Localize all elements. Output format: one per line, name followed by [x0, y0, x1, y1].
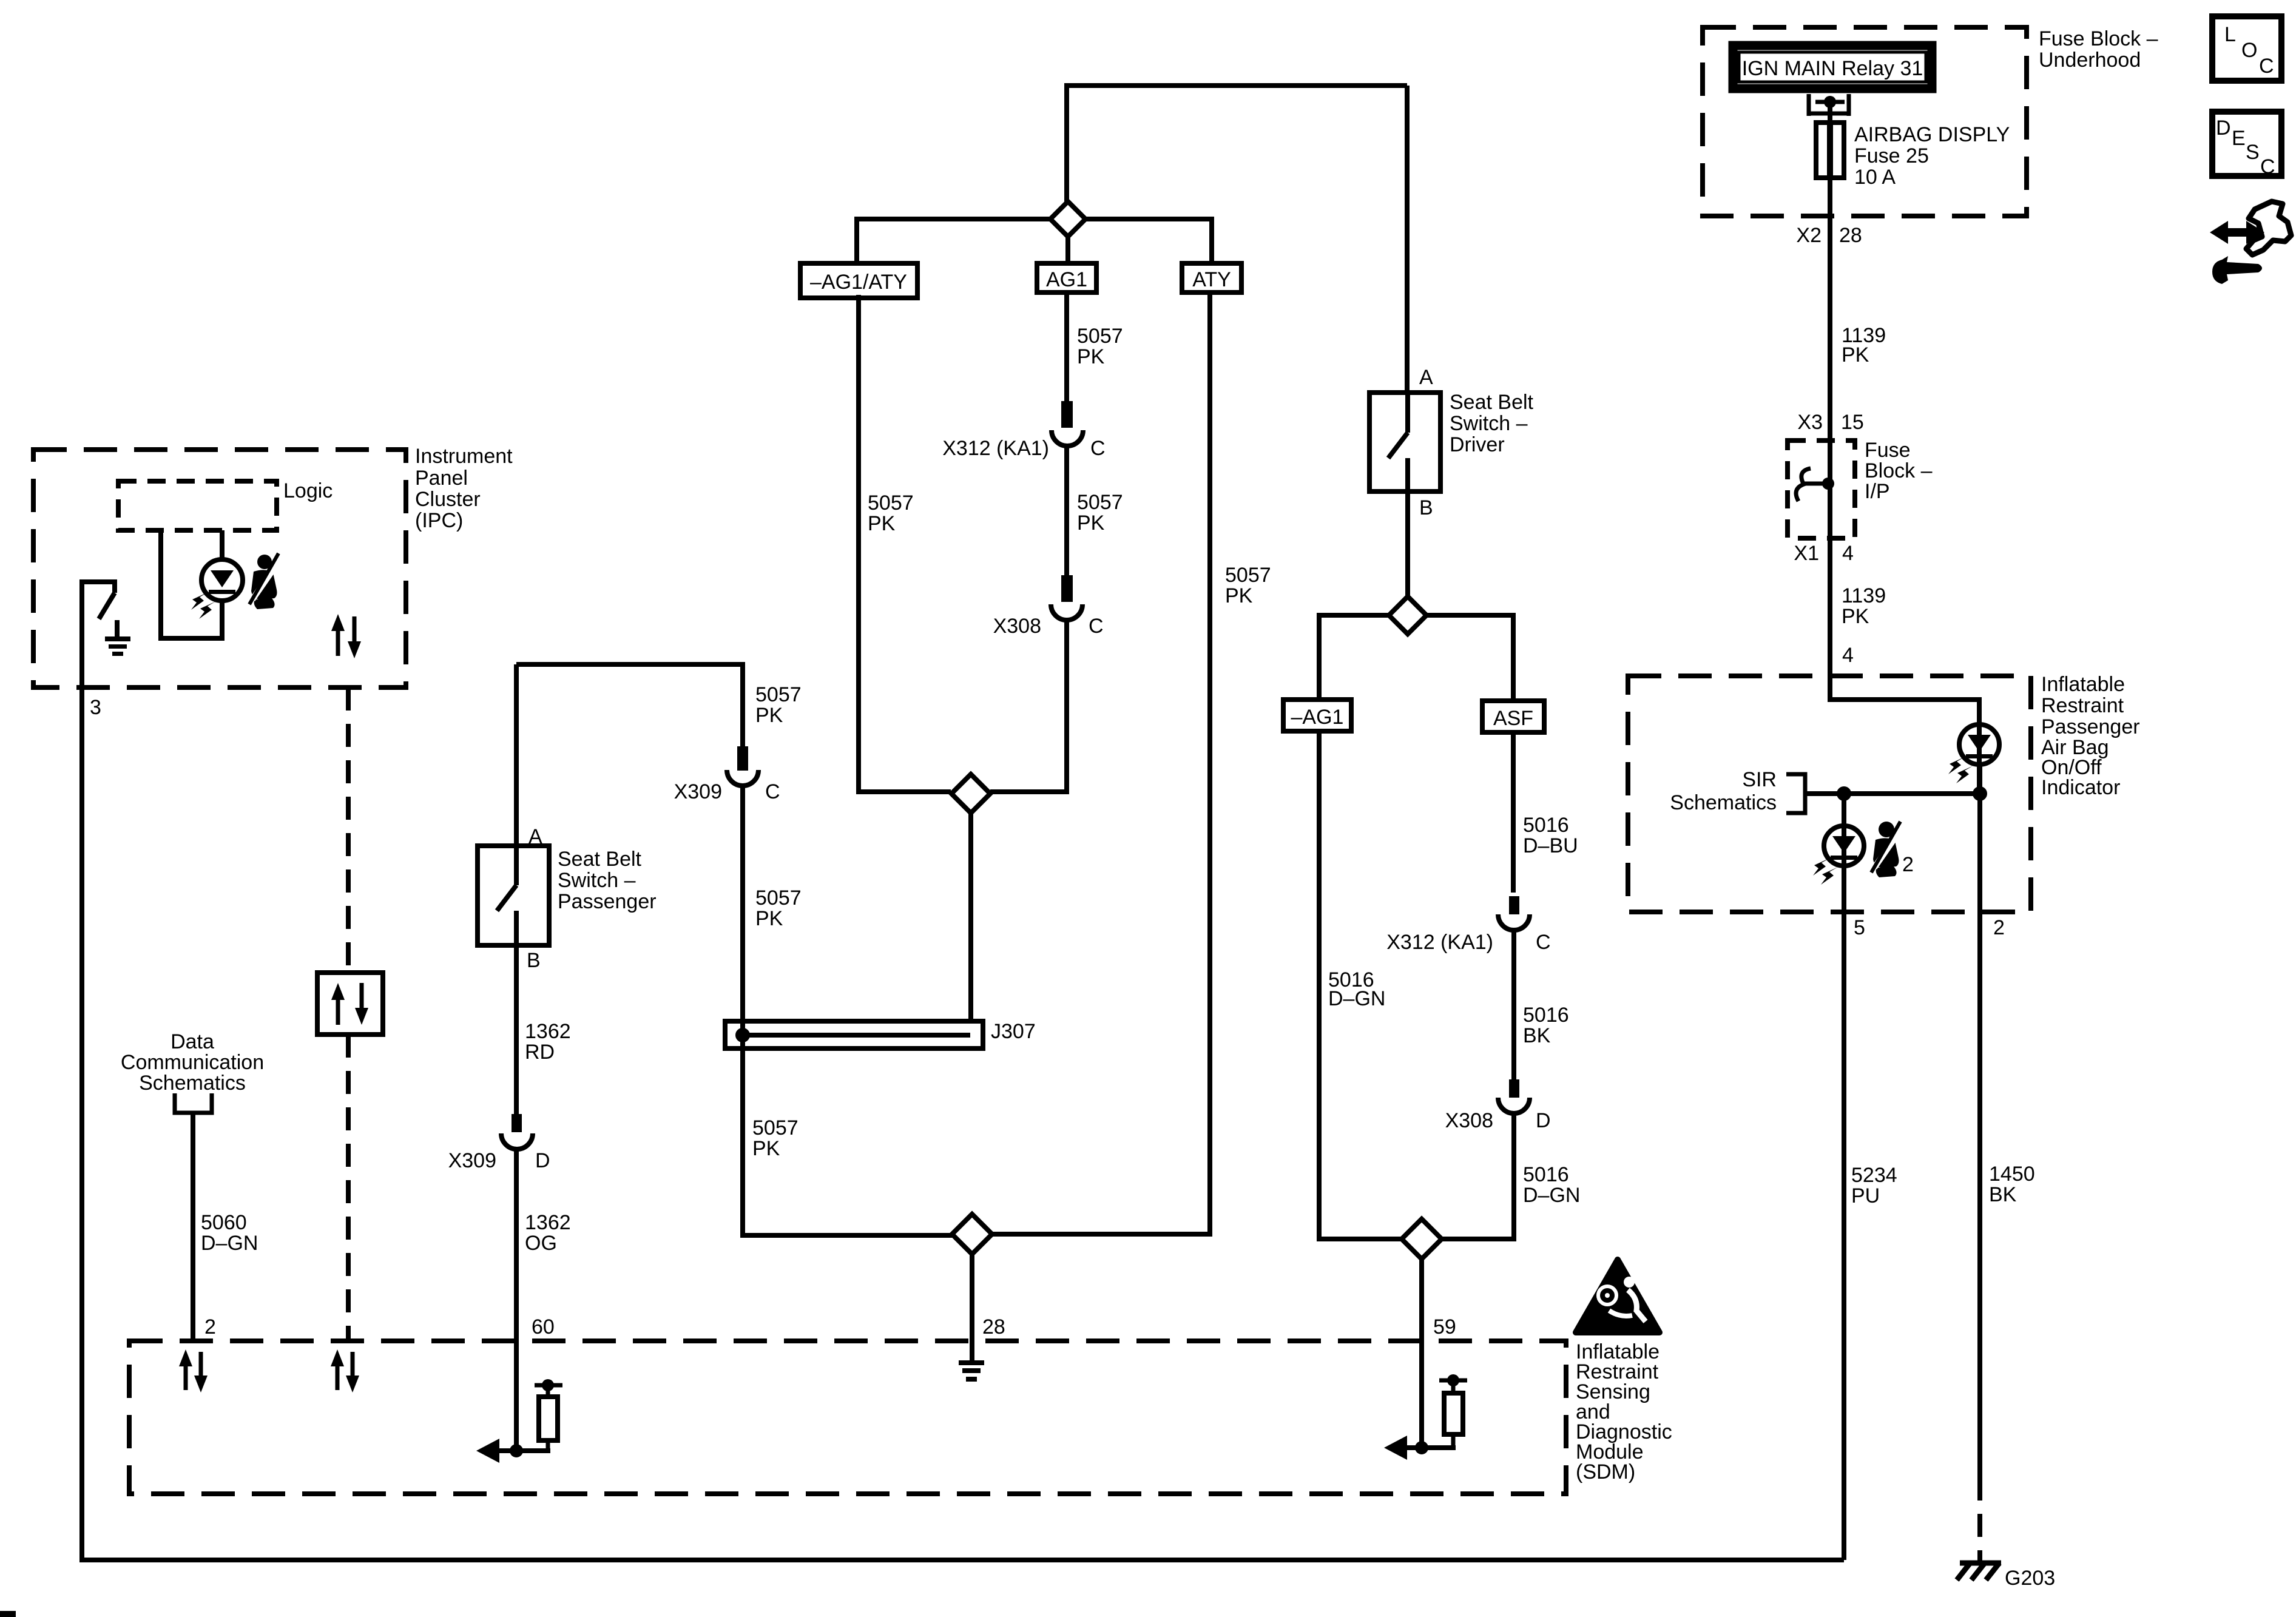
fuse 25 AIRBAG DISPLY 10A [1816, 123, 2010, 189]
wire: IPC LED loop [161, 530, 222, 638]
relay output terminal [1809, 94, 1849, 116]
svg-text:4: 4 [1842, 542, 1854, 565]
svg-text:3: 3 [90, 696, 101, 719]
svg-text:28: 28 [1839, 224, 1862, 247]
svg-text:Instrument: Instrument [415, 445, 513, 468]
svg-text:D–GN: D–GN [201, 1232, 258, 1255]
svg-text:X308: X308 [993, 615, 1041, 638]
svg-text:PK: PK [752, 1137, 780, 1160]
svg-text:1450: 1450 [1989, 1163, 2035, 1186]
svg-text:C: C [1090, 437, 1106, 460]
svg-text:C: C [1536, 931, 1551, 954]
junction node (left) [1837, 786, 1851, 801]
svg-text:5057: 5057 [752, 1116, 799, 1139]
svg-text:E: E [2232, 127, 2246, 150]
svg-text:PK: PK [1842, 343, 1869, 366]
Logic block [118, 479, 333, 530]
svg-text:5060: 5060 [201, 1211, 247, 1234]
svg-text:Data: Data [171, 1030, 214, 1053]
svg-text:28: 28 [982, 1315, 1005, 1338]
wire: IPC pin 3 down left side and along bottom [82, 579, 1844, 1560]
svg-text:X312 (KA1): X312 (KA1) [1386, 931, 1493, 954]
svg-text:5234: 5234 [1851, 1164, 1897, 1187]
svg-text:J307: J307 [991, 1020, 1036, 1043]
svg-text:D: D [2216, 116, 2231, 140]
wire to -AG1 [1319, 615, 1389, 700]
wire: relay to fuse [1828, 102, 1832, 123]
wire: indicator internal bus [1805, 791, 1980, 796]
svg-text:1362: 1362 [525, 1211, 571, 1234]
wire to ATY [1086, 219, 1212, 263]
wire: feed from driver branch top [1067, 86, 1407, 201]
svg-text:Seat Belt: Seat Belt [558, 848, 642, 871]
svg-text:1362: 1362 [525, 1020, 571, 1043]
svg-text:5057: 5057 [868, 491, 914, 515]
svg-text:C: C [765, 780, 780, 803]
wire to -AG1/ATY [857, 219, 1050, 263]
wire: 5016 D-GN to splice [1441, 1113, 1514, 1239]
splice diamond (bottom center) [952, 1214, 992, 1254]
wire to ASF [1427, 615, 1513, 701]
svg-text:–AG1: –AG1 [1291, 706, 1344, 729]
svg-text:2: 2 [1993, 916, 2005, 939]
svg-text:2: 2 [204, 1315, 216, 1338]
connector X308 pin D [1445, 1079, 1551, 1132]
seat belt wearer icon [249, 553, 279, 609]
splice diamond (top) [1050, 201, 1086, 237]
data link symbol box [317, 973, 383, 1035]
svg-text:PK: PK [868, 512, 896, 535]
svg-text:B: B [527, 949, 541, 972]
svg-text:OG: OG [525, 1232, 557, 1255]
svg-text:Fuse 25: Fuse 25 [1854, 144, 1929, 167]
svg-text:C: C [1089, 615, 1104, 638]
wire to AG1 [1065, 237, 1070, 263]
wire: B down to splice [1405, 491, 1410, 596]
wire: top link to X309 C [516, 664, 743, 751]
svg-text:Passenger: Passenger [558, 890, 657, 913]
svg-text:Inflatable: Inflatable [2041, 673, 2125, 696]
SDM serial data arrows (right) [331, 1349, 359, 1393]
svg-text:5057: 5057 [755, 886, 802, 910]
splice diamond (driver low) [1402, 1219, 1442, 1259]
wire: 1450 BK (pin 2) [1977, 765, 1982, 1477]
wire: X312 to X308 [1064, 446, 1069, 576]
svg-text:Panel: Panel [415, 467, 468, 490]
SDM input network (driver): arrow + pull-up resistor [1384, 1374, 1467, 1460]
seat belt wearer icon 2 [1871, 822, 1914, 877]
svg-text:Seat Belt: Seat Belt [1450, 391, 1534, 414]
svg-text:4: 4 [1842, 644, 1854, 667]
wire: ATY run down to splice [992, 292, 1210, 1234]
net name box AG1 [1037, 263, 1096, 292]
switch box (passenger) [478, 846, 657, 945]
wire: drop to switch [514, 664, 519, 846]
svg-text:SIR: SIR [1742, 768, 1777, 791]
wire: fuse down to fuse block I/P [1828, 178, 1832, 441]
svg-text:Cluster: Cluster [415, 488, 481, 511]
svg-text:BK: BK [1523, 1024, 1551, 1047]
svg-text:5016: 5016 [1523, 814, 1569, 837]
svg-text:PK: PK [1225, 584, 1253, 607]
svg-text:D–GN: D–GN [1328, 987, 1385, 1010]
svg-text:Switch –: Switch – [558, 869, 636, 892]
svg-text:Switch –: Switch – [1450, 412, 1528, 435]
svg-text:ASF: ASF [1493, 707, 1533, 730]
wire: splice to SDM pin 59 [1419, 1258, 1424, 1448]
circuit breaker symbol [1796, 468, 1834, 501]
SIR Schematics reference [1670, 768, 1805, 814]
svg-text:1139: 1139 [1842, 584, 1886, 607]
switch box (driver) [1369, 391, 1534, 491]
svg-text:Restraint: Restraint [2041, 694, 2124, 717]
svg-text:PK: PK [755, 704, 783, 727]
wire: through I/P block [1828, 441, 1832, 538]
wire: 1362 OG to SDM pin 60 [514, 1149, 519, 1451]
SDM serial data arrows (left) [179, 1349, 208, 1393]
connector X312 (KA1) pin C (driver run) [1386, 896, 1550, 954]
svg-text:59: 59 [1433, 1315, 1456, 1338]
net name box ATY [1182, 263, 1241, 292]
wire (dashed) from IPC to comm box [346, 687, 351, 973]
svg-text:X312 (KA1): X312 (KA1) [942, 437, 1049, 460]
svg-text:Driver: Driver [1450, 433, 1505, 456]
SDM input network (passenger): arrow + pull-up resistor [476, 1379, 562, 1463]
svg-text:5057: 5057 [1225, 564, 1271, 587]
IPC module box [33, 445, 513, 687]
wire: J307 to bottom splice [743, 1035, 952, 1235]
svg-text:Schematics: Schematics [139, 1072, 246, 1095]
indicator LED (seat belt lamp) [191, 559, 243, 619]
svg-text:10 A: 10 A [1854, 166, 1896, 189]
net name box ASF [1482, 701, 1544, 732]
ground (SDM internal) [959, 1360, 984, 1382]
svg-text:Passenger: Passenger [2041, 715, 2140, 738]
wire: splice to SDM pin 28 [970, 1254, 974, 1363]
svg-text:PK: PK [755, 907, 783, 930]
svg-text:Fuse Block –: Fuse Block – [2039, 27, 2158, 50]
repair info icon (arrow / connector / wrench) [2210, 201, 2291, 284]
splice pack J307 [725, 1020, 1036, 1048]
svg-text:D: D [1536, 1109, 1551, 1132]
svg-text:60: 60 [532, 1315, 555, 1338]
svg-text:5: 5 [1854, 916, 1865, 939]
svg-text:B: B [1419, 496, 1433, 519]
svg-text:A: A [1419, 366, 1433, 389]
svg-text:5057: 5057 [755, 683, 802, 706]
svg-text:S: S [2246, 141, 2260, 164]
wire: -AG1 run down to splice [1319, 731, 1402, 1239]
svg-text:I/P: I/P [1865, 480, 1890, 503]
svg-text:C: C [2259, 55, 2274, 78]
net name box -AG1/ATY [800, 263, 917, 298]
svg-text:X3: X3 [1797, 411, 1823, 434]
svg-text:Indicator: Indicator [2041, 776, 2120, 799]
wire: splice down to J307 [968, 813, 973, 1019]
wire: J307 top entry (covered) [740, 1021, 745, 1035]
svg-text:G203: G203 [2005, 1567, 2055, 1590]
switch in IPC (sensor) [82, 579, 117, 636]
svg-text:RD: RD [525, 1041, 555, 1064]
svg-text:X1: X1 [1794, 542, 1819, 565]
svg-text:PU: PU [1851, 1184, 1880, 1207]
wire: dashed to G203 [1977, 1477, 1982, 1561]
relay IGN MAIN Relay 31 [1733, 46, 1932, 89]
svg-text:Communication: Communication [121, 1051, 264, 1074]
svg-text:–AG1/ATY: –AG1/ATY [810, 271, 907, 294]
svg-text:AG1: AG1 [1046, 268, 1087, 291]
connector X308 pin C [993, 575, 1104, 638]
svg-text:X2: X2 [1796, 224, 1822, 247]
junction node (right) [1973, 786, 1987, 801]
wire: X308 down to splice [990, 620, 1067, 792]
connector X309 pin C [674, 746, 780, 803]
wire: AG1 down to X312 [1064, 292, 1069, 402]
wire: X309 C to J307 [740, 786, 745, 1019]
svg-text:PK: PK [1842, 605, 1869, 628]
svg-text:5057: 5057 [1077, 491, 1123, 514]
svg-text:(IPC): (IPC) [415, 509, 463, 532]
net name box -AG1 [1283, 700, 1351, 731]
connector X309 pin D [448, 1114, 550, 1172]
wire: 5060 D-GN [191, 1113, 195, 1341]
svg-text:5016: 5016 [1523, 1163, 1569, 1186]
wire: drop to driver switch [1405, 86, 1410, 393]
svg-text:Logic: Logic [283, 479, 333, 502]
connector X312 (KA1) pin C [942, 401, 1105, 460]
svg-text:5016: 5016 [1523, 1004, 1569, 1027]
svg-text:C: C [2260, 155, 2275, 178]
svg-text:PK: PK [1077, 345, 1105, 368]
svg-text:D–GN: D–GN [1523, 1184, 1580, 1207]
svg-text:Schematics: Schematics [1670, 791, 1777, 814]
svg-text:(SDM): (SDM) [1576, 1460, 1635, 1484]
LED: seat belt reminder lamp 2 [1813, 794, 1864, 885]
wire: 1362 RD to X309 D [514, 945, 519, 1115]
svg-text:Underhood: Underhood [2039, 49, 2141, 72]
svg-text:PK: PK [1077, 511, 1105, 535]
svg-text:X309: X309 [674, 780, 722, 803]
LOC legend box [2212, 16, 2281, 81]
SIR warning triangle [1576, 1260, 1660, 1332]
svg-text:D: D [535, 1149, 550, 1172]
wire: LED to junction [1977, 765, 1982, 794]
splice diamond (driver) [1389, 596, 1427, 634]
svg-text:5057: 5057 [1077, 325, 1123, 348]
Fuse Block - I/P [1788, 439, 1933, 538]
ground G203 [1957, 1563, 2055, 1590]
wire: 5234 PU (pin 5) [1842, 866, 1846, 1560]
data arrows in IPC [331, 614, 361, 658]
svg-text:X308: X308 [1445, 1109, 1493, 1132]
wire: 5016 BK to X308 [1511, 930, 1516, 1082]
svg-text:D–BU: D–BU [1523, 834, 1578, 857]
svg-text:AIRBAG DISPLY: AIRBAG DISPLY [1854, 123, 2010, 146]
svg-text:IGN MAIN Relay 31: IGN MAIN Relay 31 [1742, 57, 1923, 80]
wire: -AG1/ATY down to splice [859, 295, 951, 792]
wire (dashed) from box to SDM [346, 1035, 351, 1341]
svg-text:L: L [2224, 23, 2236, 46]
svg-text:2: 2 [1902, 853, 1914, 876]
DESC legend box [2212, 112, 2281, 178]
svg-text:BK: BK [1989, 1183, 2017, 1206]
svg-text:ATY: ATY [1192, 268, 1231, 291]
ground (IPC internal) [105, 636, 130, 656]
svg-text:X309: X309 [448, 1149, 496, 1172]
svg-text:Block –: Block – [1865, 459, 1933, 482]
splice diamond (mid) [951, 774, 990, 813]
svg-text:Fuse: Fuse [1865, 439, 1911, 462]
svg-text:O: O [2241, 39, 2257, 62]
svg-text:15: 15 [1841, 411, 1864, 434]
LED: passenger airbag on/off lamp [1948, 724, 1999, 783]
wire: 1139 PK to indicator [1830, 538, 1979, 724]
wire: ASF down to X312 [1511, 732, 1516, 893]
